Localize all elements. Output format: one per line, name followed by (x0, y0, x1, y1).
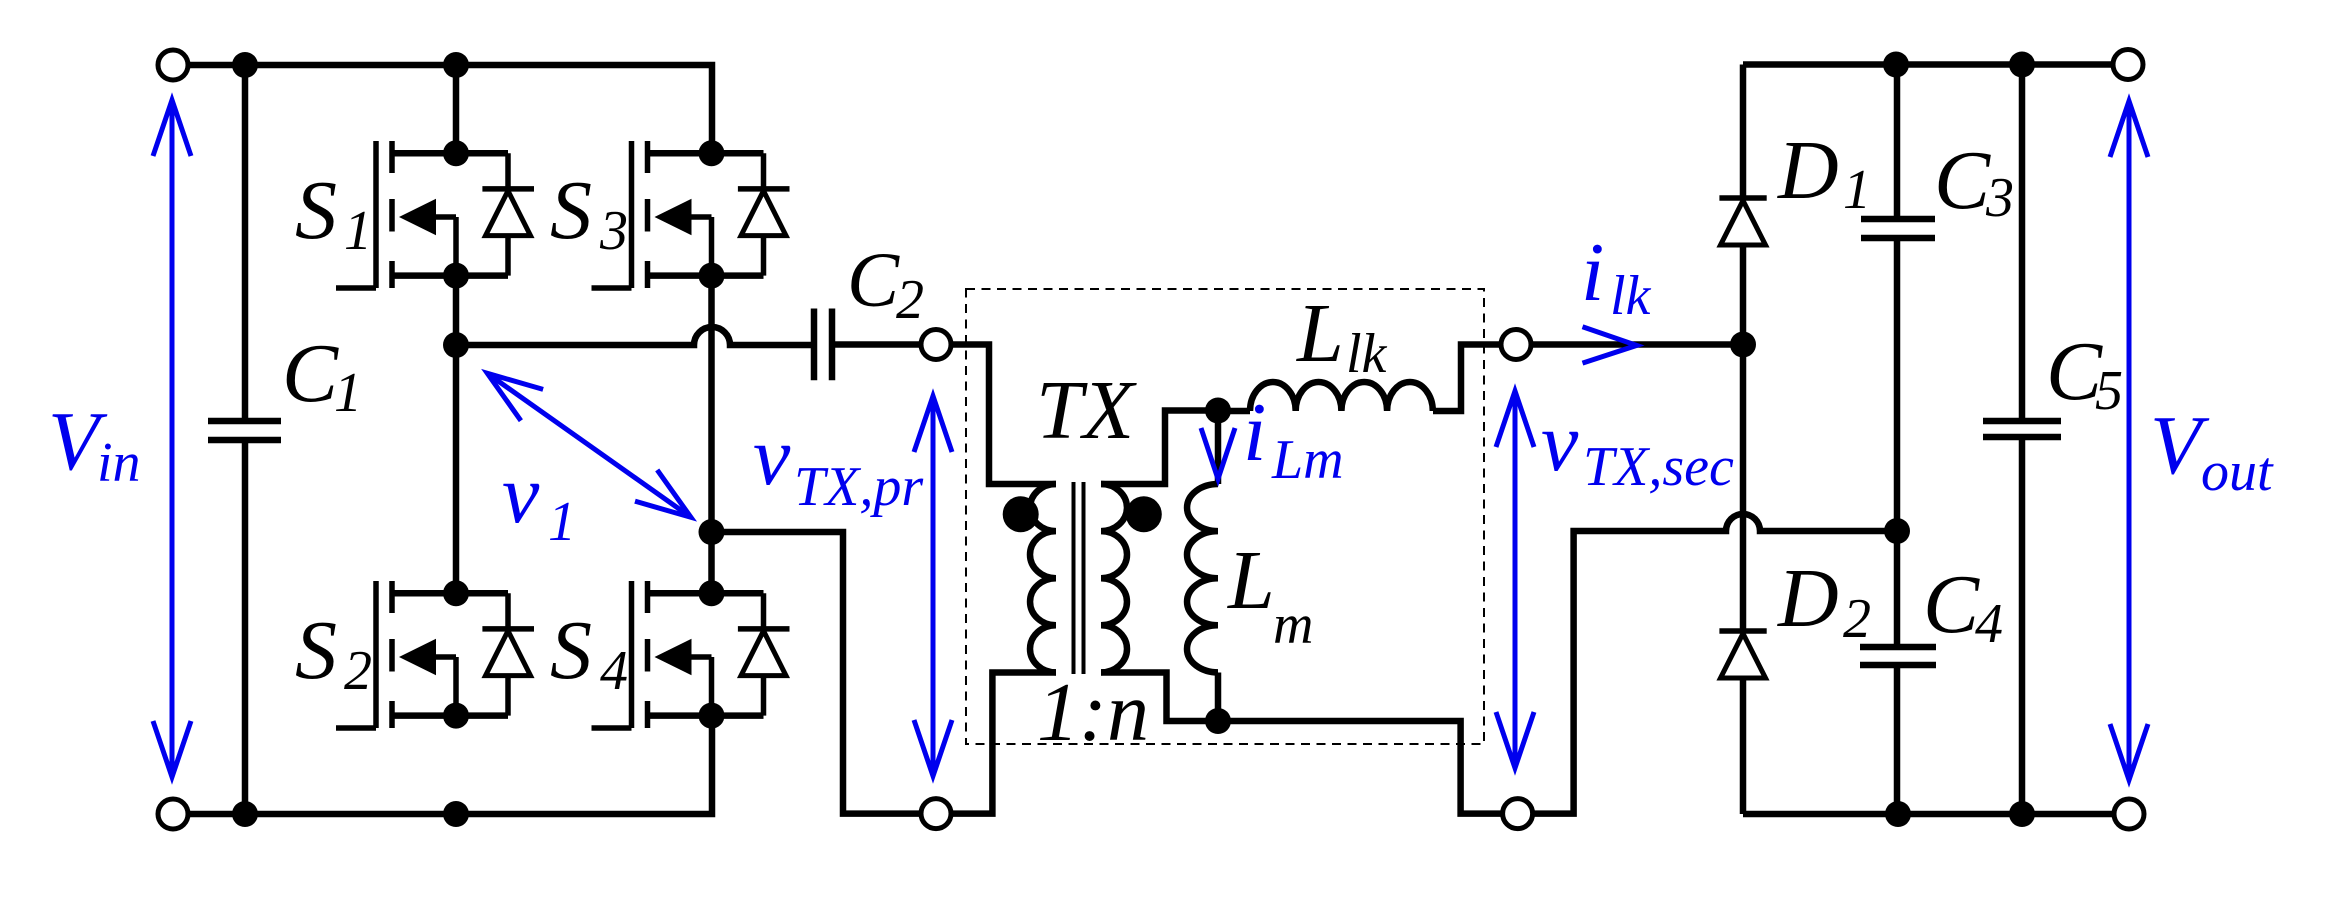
transistor S1 drain lead (453, 65, 460, 153)
svg-text:v: v (1541, 396, 1579, 489)
input terminal bottom (158, 799, 188, 829)
svg-text:C: C (1923, 558, 1980, 651)
svg-text:1: 1 (344, 200, 372, 262)
wire secondary bottom to terminal (1218, 721, 1502, 814)
node bottom rail C4 tap (1885, 801, 1911, 827)
transistor S1 (336, 140, 534, 288)
output terminal bottom (2114, 799, 2144, 829)
wire top rail left (188, 65, 712, 153)
svg-text:1: 1 (548, 491, 576, 553)
primary terminal top (921, 330, 951, 360)
vTXsec arrow (1496, 391, 1534, 768)
ilk arrow (1583, 327, 1637, 363)
svg-text:1: 1 (334, 362, 362, 424)
transistor S4 drain lead (708, 532, 715, 593)
inductor Llk (1250, 382, 1433, 411)
iLm arrow (1201, 428, 1235, 479)
Vin arrow (153, 100, 191, 777)
svg-text:TX,sec: TX,sec (1583, 436, 1734, 498)
inductor Lm (1187, 484, 1218, 672)
wire Lm top lead (1215, 411, 1222, 485)
transformer secondary polarity dot (1126, 496, 1162, 532)
transistor S2 drain lead (453, 345, 460, 593)
capacitor C4 wires (1894, 531, 1901, 814)
svg-text:4: 4 (600, 640, 628, 702)
svg-text:D: D (1777, 552, 1839, 645)
node top rail C1 tap (232, 52, 258, 78)
capacitor C5 wires (2019, 65, 2026, 815)
wire primary terminal to winding top (951, 345, 1056, 485)
wire top rail right (1743, 61, 2113, 68)
transformer dashed box (966, 289, 1484, 744)
node C3 C4 midpoint (1884, 518, 1910, 544)
wire Lm bottom lead (1215, 673, 1222, 722)
node bridge right midpoint v1 (699, 519, 725, 545)
svg-text:TX,pr: TX,pr (794, 456, 923, 518)
svg-text:L: L (1296, 287, 1344, 380)
svg-text:1: 1 (1843, 159, 1871, 221)
transformer secondary winding (1101, 484, 1127, 672)
wire Llk to secondary terminal top (1433, 345, 1501, 412)
svg-text:L: L (1227, 534, 1275, 627)
svg-text:4: 4 (1975, 593, 2003, 655)
wire secondary bottom terminal to C mid with hop over diode leg (1533, 514, 1897, 814)
node bottom rail C5 tap (2009, 801, 2035, 827)
svg-text:5: 5 (2095, 360, 2123, 422)
svg-text:S: S (295, 164, 337, 257)
transistor S1 source lead (453, 276, 460, 345)
svg-text:v: v (502, 448, 540, 541)
node Lm top (1205, 398, 1231, 424)
capacitor C5 plates (1983, 421, 2061, 437)
node bottom rail C1 tap (232, 801, 258, 827)
wire bottom rail right (1743, 811, 2114, 818)
svg-text:2: 2 (1843, 588, 1871, 650)
capacitor C3 wires (1894, 65, 1901, 532)
wire v1 node to primary bottom terminal (712, 532, 922, 814)
capacitor C1 wires (242, 65, 249, 814)
wire ilk secondary terminal to D1 anode node (1531, 341, 1743, 348)
capacitor C2 plates (814, 309, 832, 381)
svg-text:v: v (753, 410, 791, 503)
svg-text:3: 3 (599, 200, 628, 262)
node Lm bottom (1205, 708, 1231, 734)
svg-text:lk: lk (1610, 265, 1652, 327)
svg-text:TX: TX (1036, 364, 1138, 457)
svg-text:C: C (282, 327, 339, 420)
svg-text:S: S (295, 604, 337, 697)
output terminal top (2113, 50, 2143, 80)
diode D2 (1719, 628, 1766, 634)
transformer primary polarity dot (1003, 496, 1039, 532)
svg-text:S: S (550, 604, 592, 697)
capacitor C3 plates (1861, 219, 1935, 238)
transistor S4 (592, 580, 790, 728)
node top rail C3 tap (1883, 52, 1909, 78)
wire primary bottom terminal to winding bottom (951, 673, 1056, 814)
svg-text:S: S (550, 164, 592, 257)
svg-text:out: out (2201, 441, 2274, 503)
wire C2 to primary terminal (832, 341, 921, 348)
diode D1 (1719, 195, 1766, 201)
node bottom rail S2 source tap (443, 801, 469, 827)
node top rail S1 drain tap (443, 52, 469, 78)
input terminal top (158, 50, 188, 80)
svg-text:2: 2 (344, 640, 372, 702)
wire Lm node to Llk (1218, 408, 1250, 415)
svg-text:m: m (1273, 594, 1313, 656)
svg-text:1:n: 1:n (1037, 666, 1149, 759)
transistor S2 (336, 580, 534, 728)
svg-text:D: D (1777, 124, 1839, 217)
wire diode leg D1 D2 (1740, 65, 1747, 815)
secondary terminal top (1501, 330, 1531, 360)
wire bridge midpoint to C2 with hop over right leg (456, 327, 814, 345)
wire secondary winding bottom to Lm bottom node (1101, 673, 1218, 722)
node bridge left midpoint (443, 332, 469, 358)
transistor S3 source lead (708, 276, 715, 532)
wire secondary winding top to Lm node (1101, 411, 1218, 485)
svg-text:Lm: Lm (1271, 429, 1344, 491)
node D1 anode (1730, 332, 1756, 358)
Vout arrow (2110, 101, 2148, 780)
v1 arrow (487, 373, 691, 517)
node top rail C5 tap (2009, 52, 2035, 78)
transformer primary winding (1030, 484, 1056, 672)
secondary terminal bottom (1503, 799, 1533, 829)
wire bottom rail left (188, 716, 712, 814)
transistor S3 (592, 140, 790, 288)
svg-text:C: C (1934, 134, 1991, 227)
svg-text:i: i (1581, 226, 1604, 319)
svg-text:2: 2 (896, 269, 924, 331)
svg-text:3: 3 (1985, 167, 2014, 229)
capacitor C1 plates (208, 421, 281, 440)
svg-text:in: in (97, 432, 141, 494)
primary terminal bottom (921, 799, 951, 829)
capacitor C4 plates (1860, 647, 1936, 665)
transformer core (1074, 482, 1084, 674)
svg-text:lk: lk (1346, 323, 1388, 385)
svg-text:C: C (847, 236, 900, 323)
vTXpr arrow (914, 396, 952, 776)
